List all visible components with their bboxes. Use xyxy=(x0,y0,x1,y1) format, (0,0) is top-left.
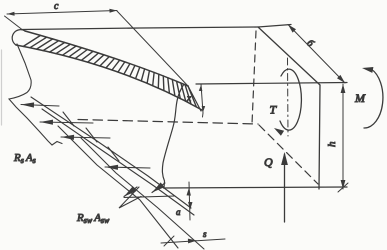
svg-text:M: M xyxy=(354,91,366,105)
svg-text:RsAs: RsAs xyxy=(13,152,36,165)
svg-text:c: c xyxy=(54,1,59,12)
svg-text:s: s xyxy=(203,229,207,239)
svg-text:RswAsw: RswAsw xyxy=(76,212,110,225)
svg-text:h: h xyxy=(326,141,338,147)
svg-text:Q: Q xyxy=(264,155,273,169)
svg-text:x: x xyxy=(186,93,191,103)
svg-text:T: T xyxy=(270,103,278,117)
svg-text:б: б xyxy=(304,38,316,50)
svg-text:a: a xyxy=(176,207,181,217)
